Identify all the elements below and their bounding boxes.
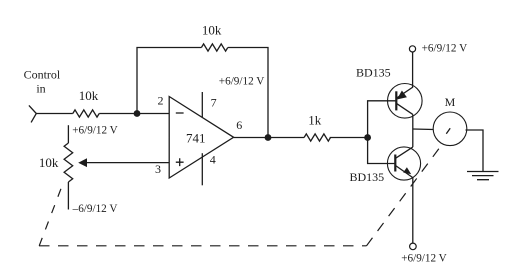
wire: input terminal to R1 bbox=[36, 113, 73, 115]
node C: junction of transistor bases bbox=[364, 134, 371, 141]
svg-text:+6/9/12 V: +6/9/12 V bbox=[219, 76, 265, 88]
svg-text:in: in bbox=[36, 82, 45, 96]
resistor R1 10k (series input) bbox=[73, 110, 99, 117]
wire: node C to Q2 base bbox=[368, 138, 396, 164]
potentiometer VR1 top wire to +supply bbox=[67, 125, 69, 143]
svg-text:1k: 1k bbox=[308, 112, 322, 127]
svg-text:741: 741 bbox=[186, 130, 206, 145]
node B: junction of output and feedback bbox=[265, 134, 272, 141]
supply terminal (top) open circle bbox=[409, 46, 415, 52]
transistor Q1 upper lead with arrow toward base bbox=[396, 87, 413, 98]
ground symbol bbox=[467, 172, 499, 180]
wire: emitter rail to motor bbox=[413, 128, 434, 131]
wire: wiper to op-amp pin 3 bbox=[87, 162, 170, 164]
transistor Q2 BD135 circle bbox=[387, 147, 420, 180]
motor slash symbol bbox=[446, 128, 450, 133]
op-amp minus sign (inverting input) bbox=[176, 112, 184, 114]
resistor R2 10k (feedback) bbox=[201, 44, 227, 51]
svg-text:+6/9/12 V: +6/9/12 V bbox=[422, 42, 468, 54]
wire: op-amp output pin 6 to R3 bbox=[234, 137, 305, 139]
svg-text:M: M bbox=[445, 95, 456, 109]
transistor Q2 lower lead with arrow away from base bbox=[395, 165, 413, 177]
input terminal chevron (Control in) bbox=[29, 105, 36, 122]
svg-text:3: 3 bbox=[155, 162, 161, 176]
resistor R3 1k (base resistor) bbox=[304, 134, 330, 141]
svg-text:+6/9/12 V: +6/9/12 V bbox=[72, 125, 118, 137]
transistor Q1 base bar bbox=[395, 91, 397, 110]
svg-text:2: 2 bbox=[158, 94, 164, 108]
svg-text:10k: 10k bbox=[202, 22, 222, 37]
wire: Q2 lower lead down to bottom supply terminal bbox=[412, 178, 414, 244]
supply terminal (bottom) open circle bbox=[410, 243, 417, 250]
svg-text:–6/9/12 V: –6/9/12 V bbox=[72, 203, 118, 215]
op-amp pin 4 stub (negative supply) bbox=[201, 153, 203, 185]
potentiometer VR1 10k body bbox=[64, 143, 73, 182]
svg-text:4: 4 bbox=[210, 153, 216, 167]
svg-text:BD135: BD135 bbox=[356, 66, 391, 80]
wire: motor to ground bbox=[466, 130, 484, 171]
wiper arrow of VR1 bbox=[78, 158, 87, 167]
svg-text:Control: Control bbox=[24, 67, 61, 81]
transistor Q2 base bar bbox=[394, 155, 396, 172]
motor M circle bbox=[433, 112, 467, 146]
svg-text:10k: 10k bbox=[39, 155, 59, 170]
wire: between Q1 and Q2 (emitter rail) bbox=[412, 114, 414, 147]
transistor Q1 BD135 circle bbox=[388, 84, 423, 119]
wire: R1 to op-amp pin 2 bbox=[99, 113, 169, 115]
mechanical link dashed: pot to baseline bbox=[39, 186, 62, 246]
wire: Q1 top lead to +supply terminal bbox=[412, 52, 414, 87]
svg-text:6: 6 bbox=[236, 118, 242, 132]
potentiometer VR1 bottom wire to -supply bbox=[67, 182, 69, 210]
transistor Q2 upper lead bbox=[395, 147, 413, 158]
mechanical link dashed: horizontal run bbox=[39, 245, 367, 247]
wire: R3 to node C bbox=[330, 137, 368, 139]
wire: node C to Q1 base bbox=[368, 101, 397, 138]
op-amp plus sign (non-inverting input) bbox=[176, 158, 184, 166]
op-amp U1 741 triangle bbox=[169, 97, 233, 179]
svg-text:BD135: BD135 bbox=[350, 170, 385, 184]
svg-text:10k: 10k bbox=[79, 88, 99, 103]
svg-text:7: 7 bbox=[211, 96, 217, 110]
op-amp pin 7 stub (positive supply) bbox=[201, 92, 203, 117]
svg-text:+6/9/12 V: +6/9/12 V bbox=[401, 252, 447, 264]
mechanical link dashed: up to motor bbox=[367, 143, 444, 246]
wire: R2 to output node B bbox=[228, 48, 268, 138]
node A: junction of R1, R2 feedback, pin 2 bbox=[134, 110, 141, 117]
transistor Q1 lower lead bbox=[396, 103, 413, 114]
wire: node A up to feedback resistor R2 bbox=[137, 48, 201, 114]
